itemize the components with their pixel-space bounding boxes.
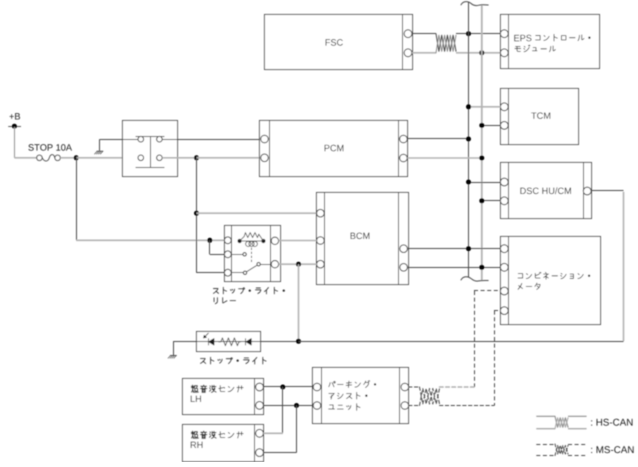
ground G2 [170,354,176,356]
node PCM L tap [479,156,484,161]
wire DSC CAN-L [482,200,501,202]
parking assist pins left [313,383,321,391]
label STOP 10A [28,144,33,151]
node stop lamp signal junction A [194,155,199,160]
label parking assist line2 [329,393,335,399]
label parking assist line1 [329,381,336,386]
relay K1 pin circles [138,136,144,142]
HS-CAN bus line L [481,6,483,282]
label stop-light relay line2 [214,298,217,304]
relay coil [241,240,262,242]
wire relay1 stop lamp output [162,157,196,159]
wire junction E to DSC drop [299,341,624,343]
label EPS module line2 [515,47,521,52]
node BCM feed junction B [194,211,199,216]
label combination meter line2 [518,283,522,289]
label EPS control module line1 [514,35,519,41]
bus break squiggle bottom [461,277,488,281]
wire junction down to stop-light relay feed [76,158,78,241]
ground G1 [97,150,103,152]
wire battery feed to fuse [14,157,36,159]
label combination meter line1 [518,274,523,278]
wire BCM to combination meter CAN1 [407,248,500,250]
stop light diode D1 [208,338,210,345]
wire junction A down to BCM branch [196,158,198,273]
node sensor junction F [280,385,285,390]
wire twist to bus junctions [456,33,501,35]
wire junction C branch to relay pin2 [209,240,211,254]
BCM pins right [400,245,408,253]
wire FSC CAN-L [412,52,436,54]
node stop lamp out junction D [296,262,301,267]
PCM box [260,121,408,177]
label +B [9,114,13,119]
ultrasonic sensor LH box [183,379,264,415]
wire FSC CAN-H [412,33,436,35]
label BCM [351,233,356,239]
node stop light junction E [296,339,301,344]
wire stop relay out1 to BCM [279,240,317,242]
parking assist unit box [313,368,409,424]
node DSC H tap [466,180,471,185]
node sensor junction G [294,403,299,408]
FSC pins [404,30,412,38]
relay switch arm [246,265,257,272]
fuse STOP 10A [37,155,42,160]
label stop-light relay line1 [213,289,218,294]
label DSC HU/CM [520,188,525,194]
node DSC L tap [479,198,484,203]
wire PCM CAN-L to bus [407,157,482,159]
HS-CAN bus line H [468,2,470,278]
wire TCM CAN-L [482,125,501,127]
EPS pins [500,30,508,38]
legend MS-CAN twisted pair symbol dashed [536,444,555,446]
label ultrasonic sensor RH line1 [191,431,198,438]
FSC box [265,15,413,70]
combination meter box [501,237,601,325]
stop light internal wire [197,341,262,343]
label parking assist line3 [329,405,335,409]
wire DSC output right [591,190,624,192]
relay coil nodes [238,239,242,243]
wire DSC output down [623,192,625,341]
EPS control module box [501,15,600,69]
node fuse output junction [74,155,79,160]
wire junction A to PCM pin2 [197,157,261,159]
wire relay1 output to PCM pin1 [162,139,261,141]
label HS-CAN [590,420,593,425]
wire stop relay out2 to BCM [279,263,317,265]
wire RH sensor signal1 stub [263,432,282,434]
stop-light relay pins left [224,237,231,244]
node meter H tap [466,246,471,251]
wire BCM to combination meter CAN2 [407,267,500,269]
wire meter MS-CAN2 dashed [494,310,500,312]
wire feed to stop-light relay pin1 [76,239,224,241]
wire LH sensor signal1 to parking assist [263,386,313,388]
label ultrasonic sensor LH line2 [191,396,195,402]
wire relay1 coil to ground [100,139,138,141]
wire +B down to fuse [14,127,16,158]
stop-light relay box [225,226,281,282]
label MS-CAN [590,448,593,453]
node HS-CAN L tap FSC [479,50,484,55]
wire junction F down to RH [282,387,284,433]
node TCM H tap [466,104,471,109]
node HS-CAN H tap FSC [466,31,471,36]
label ultrasonic sensor LH line1 [191,385,198,392]
BCM pins left [317,209,325,217]
twisted pair parking assist MS-CAN dashed [409,386,420,388]
node +B terminal [12,124,17,129]
BCM box [317,193,409,285]
TCM box [501,89,579,145]
stop-light relay pins right [271,237,278,244]
wire junction G down to RH [296,406,298,453]
wire to stop-light relay pin3 [197,272,225,274]
ultrasonic sensor LH pins [256,383,264,391]
DSC HU/CM box [501,163,592,219]
wire +B supply tick [8,126,21,128]
node meter L tap [479,265,484,270]
ultrasonic sensor RH pins [256,429,264,437]
wire PCM CAN-H to bus [407,138,468,140]
wire stop light to ground [173,341,197,343]
stop light resistor [219,338,241,346]
wire fuse to junction [60,157,76,159]
wire junction to relay1 [76,157,138,159]
ultrasonic sensor RH box [183,425,264,462]
twisted pair FSC to HS-CAN bus [436,34,456,52]
relay switch contacts [231,254,243,256]
wire stop light feed long run [262,341,299,343]
wire TCM CAN-H [469,106,501,108]
combination meter pins [500,245,508,253]
relay K1 contact bars [136,136,165,138]
wire DSC CAN-H [469,182,501,184]
label TCM [531,112,536,118]
label PCM [325,145,330,151]
wire meter MS-CAN1 dashed [474,290,500,292]
bus break squiggle top [461,2,488,6]
PCM pins [261,135,269,143]
DSC pins [500,178,508,186]
node TCM L tap [479,123,484,128]
label FSC [326,39,330,45]
relay resistor [240,233,264,241]
relay K1 box [123,121,178,177]
label stop light [200,359,205,364]
stop light diode D2 [245,338,247,345]
node PCM H tap [466,137,471,142]
parking assist pins right [401,383,409,391]
wire RH sensor signal2 stub [263,452,296,454]
stop light LED arrow [206,333,209,336]
wire junction B to BCM pin1 [197,212,317,214]
wire LH sensor signal2 to parking assist [263,405,313,407]
label ultrasonic sensor RH line2 [191,442,196,448]
wire junction D down to stop light feed [298,264,300,341]
legend HS-CAN twisted pair symbol [536,415,555,417]
stop light box [197,332,261,352]
node stop relay feed junction C [207,238,212,243]
TCM pins [500,103,508,111]
relay mechanical link dashed [251,248,253,264]
